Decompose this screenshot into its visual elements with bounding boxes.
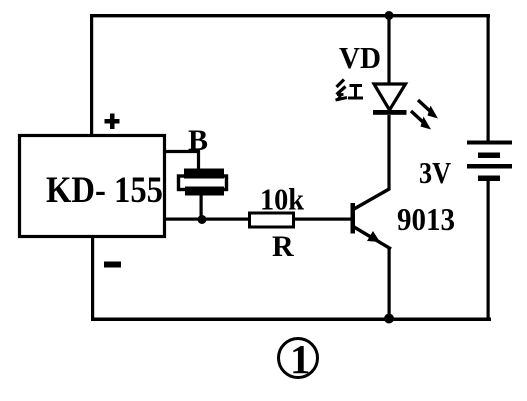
svg-text:10k: 10k bbox=[260, 182, 305, 217]
svg-text:B: B bbox=[188, 124, 208, 157]
wire box to resistor bbox=[165, 218, 249, 221]
transistor Q 9013 bbox=[351, 189, 392, 250]
node junction dot emitter-bottom bbox=[384, 314, 394, 324]
wire resistor to base bbox=[295, 218, 351, 221]
wire bottom rail bbox=[91, 318, 491, 322]
svg-text:KD- 155: KD- 155 bbox=[46, 170, 163, 211]
wire left vertical upper bbox=[90, 14, 93, 136]
wire emitter to bottom rail bbox=[388, 247, 391, 319]
resistor R 10k bbox=[250, 213, 294, 227]
node junction dot piezo bbox=[198, 215, 207, 224]
svg-text:1: 1 bbox=[290, 336, 311, 382]
wire right vertical lower bbox=[487, 179, 490, 321]
piezo buzzer B bbox=[179, 169, 227, 196]
battery GB 3V bbox=[467, 141, 512, 182]
figure number circled 1 bbox=[279, 336, 318, 382]
label red (Chinese) bbox=[336, 80, 364, 101]
svg-text:R: R bbox=[272, 230, 294, 263]
svg-text:9013: 9013 bbox=[397, 201, 455, 237]
wire from box to piezo B bbox=[165, 152, 199, 171]
label + (positive terminal) bbox=[105, 114, 120, 130]
wire top rail bbox=[90, 14, 490, 17]
LED VD diode triangle bbox=[373, 84, 407, 115]
svg-text:VD: VD bbox=[339, 40, 381, 75]
wire LED cathode to collector bbox=[387, 115, 390, 190]
wire left vertical lower bbox=[91, 237, 94, 321]
KD-155 module box bbox=[20, 136, 165, 237]
label - (negative terminal) bbox=[104, 262, 121, 268]
wire top rail to LED bbox=[387, 15, 390, 85]
LED light emission arrows bbox=[411, 100, 438, 130]
node junction dot LED-top bbox=[385, 11, 394, 20]
wire piezo to node bbox=[200, 195, 203, 221]
wire right vertical upper bbox=[487, 14, 490, 143]
svg-text:3V: 3V bbox=[419, 155, 452, 190]
